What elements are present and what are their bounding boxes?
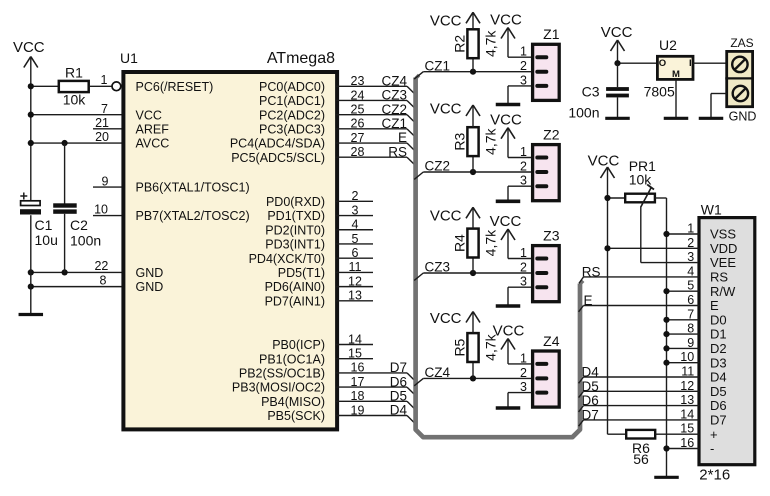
U1 right pin labels <box>230 80 325 423</box>
svg-text:GND: GND <box>136 266 164 280</box>
svg-text:PC5(ADC5/SCL): PC5(ADC5/SCL) <box>231 151 325 165</box>
node junction rail-pin22 <box>28 269 34 275</box>
wire U1 pin 12 stub <box>336 274 373 288</box>
wire W1 pin1 VSS to ground rail <box>667 233 700 235</box>
power flag VCC at C3/U2 <box>601 24 633 63</box>
node junction gnd-pin10 <box>663 360 669 366</box>
wire U1 pin 19 net D4 to bus <box>336 403 414 423</box>
svg-text:PB4(MISO): PB4(MISO) <box>261 395 325 409</box>
svg-text:2: 2 <box>520 261 527 275</box>
svg-text:8: 8 <box>100 274 107 288</box>
wire U1 pin 14 stub <box>336 332 373 346</box>
svg-text:1: 1 <box>520 246 527 260</box>
power flag VCC for Z1 pin 1 <box>490 12 531 58</box>
wire net D7 from bus to W1 pin14 <box>579 407 700 426</box>
wire U1 pin 28 net RS to bus <box>336 144 414 164</box>
svg-text:PC6(/RESET): PC6(/RESET) <box>136 80 214 94</box>
svg-text:E: E <box>584 293 593 308</box>
svg-text:PB6(XTAL1/TOSC1): PB6(XTAL1/TOSC1) <box>136 181 250 195</box>
wire PR1 wiper to VEE <box>641 207 698 263</box>
svg-text:R2: R2 <box>451 35 467 53</box>
wire pin7 VCC <box>31 102 125 116</box>
wire W1 pin5 R/W to ground rail <box>667 290 700 292</box>
svg-text:PC4(ADC4/SDA): PC4(ADC4/SDA) <box>230 137 325 151</box>
svg-text:PB3(MOSI/OC2): PB3(MOSI/OC2) <box>232 381 325 395</box>
svg-text:Z1: Z1 <box>543 26 560 42</box>
svg-text:3: 3 <box>520 73 527 87</box>
svg-text:CZ2: CZ2 <box>425 159 451 174</box>
svg-text:AVCC: AVCC <box>136 137 170 151</box>
node junction gnd-pin16 <box>663 445 669 451</box>
power flag VCC for Z2 pin 1 <box>490 112 531 158</box>
svg-text:PC0(ADC0): PC0(ADC0) <box>259 80 325 94</box>
wire W1 pin2 VDD to VCC rail <box>608 247 700 249</box>
svg-text:D2: D2 <box>710 341 727 356</box>
wire net D5 from bus to W1 pin12 <box>579 379 700 398</box>
svg-text:VCC: VCC <box>490 213 522 230</box>
svg-text:-: - <box>710 441 714 456</box>
svg-text:VCC: VCC <box>430 208 462 225</box>
capacitor C3 100n <box>568 63 629 120</box>
svg-text:23: 23 <box>351 74 365 88</box>
svg-text:PB0(ICP): PB0(ICP) <box>272 338 325 352</box>
capacitor C2 100n <box>53 143 101 272</box>
svg-text:CZ1: CZ1 <box>425 58 451 73</box>
svg-text:D4: D4 <box>390 403 408 418</box>
wire net CZ2 from bus to Z2 pin 2 <box>414 159 531 180</box>
svg-text:28: 28 <box>351 145 365 159</box>
svg-text:13: 13 <box>348 289 362 303</box>
svg-text:VCC: VCC <box>601 24 633 41</box>
svg-text:CZ3: CZ3 <box>381 88 407 103</box>
connector ZAS <box>725 36 756 124</box>
svg-text:1: 1 <box>520 145 527 159</box>
svg-text:14: 14 <box>348 332 362 346</box>
bus (thick gray net bundle) <box>416 75 584 437</box>
svg-text:C2: C2 <box>70 217 88 233</box>
svg-text:C3: C3 <box>582 83 600 99</box>
wire net CZ3 from bus to Z3 pin 2 <box>414 260 531 281</box>
svg-text:GND: GND <box>136 280 164 294</box>
wire U2 M pin to ground <box>675 79 677 117</box>
wire W1 pin10 D3 to ground rail <box>667 362 700 364</box>
ground for Z2 pin 3 <box>496 186 531 201</box>
svg-text:E: E <box>710 298 719 313</box>
wire U1 pin 11 stub <box>336 260 373 274</box>
svg-text:CZ4: CZ4 <box>425 365 451 380</box>
svg-text:3: 3 <box>520 380 527 394</box>
svg-text:VCC: VCC <box>490 112 522 129</box>
svg-text:PB5(SCK): PB5(SCK) <box>267 409 325 423</box>
svg-text:E: E <box>398 130 407 145</box>
svg-text:9: 9 <box>102 174 109 188</box>
svg-text:R5: R5 <box>451 338 467 356</box>
svg-text:26: 26 <box>351 117 365 131</box>
svg-text:10u: 10u <box>35 232 58 248</box>
wire U1 pin 15 stub <box>336 347 373 361</box>
svg-text:4,7k: 4,7k <box>482 229 498 256</box>
node junction VCC-C3-U2 <box>614 60 620 66</box>
svg-text:R4: R4 <box>451 234 467 252</box>
wire pin8 GND <box>31 274 125 288</box>
resistor R4 4,7k pull-up <box>430 207 498 273</box>
wire U1 pin 16 net D7 to bus <box>336 360 414 380</box>
svg-text:PD4(XCK/T0): PD4(XCK/T0) <box>249 252 325 266</box>
svg-text:RS: RS <box>582 264 601 279</box>
power flag VCC at left rail <box>13 39 45 68</box>
svg-text:M: M <box>672 69 680 80</box>
svg-text:VEE: VEE <box>710 255 736 270</box>
wire pin9 XTAL1 stub <box>93 174 124 188</box>
svg-text:100n: 100n <box>568 105 599 121</box>
svg-text:2: 2 <box>352 189 359 203</box>
wire U1 pin 23 net CZ4 to bus <box>336 74 414 94</box>
power flag VCC for Z4 pin 1 <box>493 323 531 364</box>
svg-text:4: 4 <box>352 218 359 232</box>
node junction VCC-PR1 <box>604 195 610 201</box>
svg-text:D6: D6 <box>582 393 599 408</box>
svg-text:W1: W1 <box>701 202 722 218</box>
svg-text:D6: D6 <box>390 374 407 389</box>
wire W1 pin7 D0 to ground rail <box>667 319 700 321</box>
node junction C2-pin22 <box>62 269 68 275</box>
svg-text:D5: D5 <box>582 379 599 394</box>
connector Z4 <box>520 333 560 407</box>
svg-text:U1: U1 <box>120 50 138 66</box>
wire ZAS bottom terminal to ground <box>711 94 727 118</box>
resistor R5 4,7k pull-up <box>430 310 498 378</box>
svg-text:PD6(AIN0): PD6(AIN0) <box>265 280 325 294</box>
svg-text:PD5(T1): PD5(T1) <box>278 266 325 280</box>
svg-text:VCC: VCC <box>588 153 620 170</box>
wire U1 pin 18 net D5 to bus <box>336 389 414 409</box>
svg-text:3: 3 <box>687 250 694 264</box>
svg-text:CZ2: CZ2 <box>381 102 407 117</box>
power flag VCC at PR1 <box>588 153 620 179</box>
svg-text:2: 2 <box>520 366 527 380</box>
svg-text:10k: 10k <box>63 92 87 108</box>
svg-text:18: 18 <box>351 389 365 403</box>
svg-text:24: 24 <box>351 88 365 102</box>
svg-text:ZAS: ZAS <box>730 36 753 50</box>
resistor R3 4,7k pull-up <box>430 101 498 173</box>
wire U1 pin 4 stub <box>336 218 373 232</box>
svg-text:PD1(TXD): PD1(TXD) <box>267 209 325 223</box>
node junction gnd-pin9 <box>663 345 669 351</box>
svg-text:4,7k: 4,7k <box>482 30 498 57</box>
ground below U2 <box>664 117 689 120</box>
svg-text:D5: D5 <box>390 389 407 404</box>
wire net D4 from bus to W1 pin11 <box>579 365 700 384</box>
node junction vcc-pin2 <box>604 245 610 251</box>
wire net RS from bus to W1 pin4 <box>579 264 699 283</box>
svg-text:AREF: AREF <box>136 122 170 136</box>
svg-text:CZ4: CZ4 <box>381 74 407 89</box>
svg-text:D1: D1 <box>710 327 727 342</box>
svg-text:VCC: VCC <box>430 101 462 118</box>
svg-text:12: 12 <box>348 274 362 288</box>
svg-text:CZ1: CZ1 <box>381 116 407 131</box>
svg-text:Z3: Z3 <box>543 228 560 244</box>
svg-text:3: 3 <box>352 203 359 217</box>
svg-text:D4: D4 <box>582 365 600 380</box>
svg-text:CZ3: CZ3 <box>425 260 451 275</box>
wire U1 pin 17 net D6 to bus <box>336 374 414 394</box>
wire U1 pin 24 net CZ3 to bus <box>336 88 414 108</box>
svg-text:PC1(ADC1): PC1(ADC1) <box>259 94 325 108</box>
wire U1 pin 2 stub <box>336 189 373 203</box>
svg-text:2: 2 <box>520 160 527 174</box>
svg-text:PD0(RXD): PD0(RXD) <box>266 195 325 209</box>
wire W1 pin9 D2 to ground rail <box>667 347 700 349</box>
wire U1 pin 6 stub <box>336 246 373 260</box>
wire net CZ1 from bus to Z1 pin 2 <box>414 58 531 79</box>
svg-text:VCC: VCC <box>136 108 162 122</box>
wire U1 pin 13 stub <box>336 289 373 303</box>
svg-text:2*16: 2*16 <box>699 467 730 484</box>
power flag VCC for Z3 pin 1 <box>490 213 531 259</box>
ground for Z3 pin 3 <box>496 287 531 306</box>
connector Z1 <box>520 26 560 100</box>
svg-text:17: 17 <box>351 375 365 389</box>
wire net D6 from bus to W1 pin13 <box>579 393 700 412</box>
svg-text:RS: RS <box>388 144 407 159</box>
node junction CZ1-R2 <box>470 69 476 75</box>
wire U2 input to ZAS <box>693 62 727 64</box>
svg-text:7805: 7805 <box>644 83 675 99</box>
wire pin22 GND <box>31 259 125 273</box>
wire U1 pin 3 stub <box>336 203 373 217</box>
U1 left pin labels <box>136 80 250 294</box>
svg-text:7: 7 <box>101 102 108 116</box>
svg-text:56: 56 <box>633 451 649 467</box>
svg-text:4,7k: 4,7k <box>482 127 498 154</box>
svg-text:16: 16 <box>351 361 365 375</box>
svg-text:3: 3 <box>520 174 527 188</box>
op-amp/IC U1 ATmega8 body <box>120 50 337 429</box>
node junction gnd-pin8 <box>663 331 669 337</box>
svg-text:C1: C1 <box>35 217 53 233</box>
svg-text:100n: 100n <box>70 232 101 248</box>
wire right ground rail <box>666 198 668 477</box>
svg-text:R/W: R/W <box>710 284 736 299</box>
node junction gnd-pin1 <box>663 231 669 237</box>
potentiometer PR1 10k <box>608 158 667 207</box>
svg-text:GND: GND <box>729 110 757 124</box>
regulator U2 7805 <box>644 37 693 99</box>
svg-text:25: 25 <box>351 102 365 116</box>
svg-text:10k: 10k <box>629 172 653 188</box>
svg-text:VDD: VDD <box>710 241 737 256</box>
wire W1 pin16 to ground rail <box>667 448 700 450</box>
svg-text:19: 19 <box>351 403 365 417</box>
node junction rail-pin8 <box>28 284 34 290</box>
svg-text:R3: R3 <box>451 133 467 151</box>
svg-text:VCC: VCC <box>13 39 45 56</box>
node junction gnd-pin7 <box>663 317 669 323</box>
svg-text:Z2: Z2 <box>543 127 560 143</box>
svg-text:15: 15 <box>348 347 362 361</box>
wire right VCC rail <box>608 167 627 434</box>
svg-text:PC3(ADC3): PC3(ADC3) <box>259 122 325 136</box>
node junction C2-pin20 <box>62 140 68 146</box>
wire U1 pin 5 stub <box>336 232 373 246</box>
svg-text:VSS: VSS <box>710 227 736 242</box>
svg-text:1: 1 <box>520 45 527 59</box>
svg-text:D3: D3 <box>710 355 727 370</box>
wire net CZ4 from bus to Z4 pin 2 <box>414 365 531 386</box>
svg-text:VCC: VCC <box>430 12 462 29</box>
svg-text:PB7(XTAL2/TOSC2): PB7(XTAL2/TOSC2) <box>136 209 250 223</box>
svg-text:RS: RS <box>710 270 728 285</box>
ground for Z4 pin 3 <box>496 393 531 408</box>
wire U1 pin 26 net CZ1 to bus <box>336 116 414 136</box>
wire W1 pin8 D1 to ground rail <box>667 333 700 335</box>
svg-text:D6: D6 <box>710 398 727 413</box>
svg-text:I: I <box>689 58 692 69</box>
node junction CZ2-R3 <box>470 169 476 175</box>
resistor R6 56 <box>626 430 699 467</box>
ground below ZAS <box>699 117 724 120</box>
node junction gnd-pin5 <box>663 288 669 294</box>
svg-text:5: 5 <box>352 232 359 246</box>
svg-text:D7: D7 <box>582 407 599 422</box>
svg-text:Z4: Z4 <box>543 333 560 349</box>
svg-text:PB1(OC1A): PB1(OC1A) <box>259 352 325 366</box>
svg-text:11: 11 <box>349 260 362 274</box>
svg-text:PD3(INT1): PD3(INT1) <box>265 238 325 252</box>
svg-text:3: 3 <box>520 275 527 289</box>
svg-text:O: O <box>659 58 666 69</box>
svg-text:R1: R1 <box>65 65 83 81</box>
wire net E from bus to W1 pin6 <box>579 293 700 312</box>
node junction CZ3-R4 <box>470 270 476 276</box>
svg-text:22: 22 <box>94 259 108 273</box>
svg-text:D7: D7 <box>390 360 407 375</box>
svg-text:10: 10 <box>94 203 108 217</box>
svg-text:27: 27 <box>351 131 365 145</box>
pin 1 bubble of U1 PC6 <box>101 73 121 91</box>
svg-text:20: 20 <box>95 130 109 144</box>
ground for Z1 pin 3 <box>496 86 531 105</box>
wire U1 pin 25 net CZ2 to bus <box>336 102 414 122</box>
svg-text:2: 2 <box>520 59 527 73</box>
svg-text:6: 6 <box>352 246 359 260</box>
svg-text:D5: D5 <box>710 384 727 399</box>
svg-text:VCC: VCC <box>430 310 462 327</box>
svg-text:1: 1 <box>520 351 527 365</box>
ground below C3 <box>605 117 630 120</box>
svg-text:U2: U2 <box>659 37 677 53</box>
svg-text:ATmega8: ATmega8 <box>267 50 335 67</box>
svg-text:PC2(ADC2): PC2(ADC2) <box>259 108 325 122</box>
svg-text:VCC: VCC <box>490 12 522 29</box>
svg-text:VCC: VCC <box>493 323 525 340</box>
connector Z3 <box>520 228 560 302</box>
resistor R1 10k <box>31 65 112 108</box>
ground below C1 <box>19 313 44 316</box>
node junction rail-pin7 <box>28 112 34 118</box>
svg-text:D7: D7 <box>710 413 727 428</box>
resistor R2 4,7k pull-up <box>430 12 498 71</box>
node junction CZ4-R5 <box>470 375 476 381</box>
wire pin21 AREF stub <box>93 116 124 130</box>
wire pin20 AVCC <box>31 130 125 144</box>
svg-text:D0: D0 <box>710 312 727 327</box>
wire VCC rail vertical down to C1 <box>30 57 32 201</box>
connector W1 (LCD 2*16) <box>680 202 755 484</box>
ground below W1 rail <box>654 476 679 479</box>
capacitor C1 10u electrolytic <box>20 193 58 314</box>
svg-text:D4: D4 <box>710 370 727 385</box>
wire pin10 XTAL2 stub <box>93 203 124 217</box>
node junction rail-pin20 <box>28 140 34 146</box>
svg-text:PD2(INT0): PD2(INT0) <box>265 223 325 237</box>
svg-text:1: 1 <box>101 73 108 87</box>
wire U1 pin 27 net E to bus <box>336 130 414 150</box>
wire VCC node to U2 input <box>618 62 658 64</box>
svg-text:PB2(SS/OC1B): PB2(SS/OC1B) <box>239 367 325 381</box>
svg-text:21: 21 <box>95 116 109 130</box>
connector Z2 <box>520 127 560 201</box>
svg-text:PD7(AIN1): PD7(AIN1) <box>265 294 325 308</box>
svg-text:+: + <box>710 427 718 442</box>
node junction rail-R1 <box>28 83 34 89</box>
